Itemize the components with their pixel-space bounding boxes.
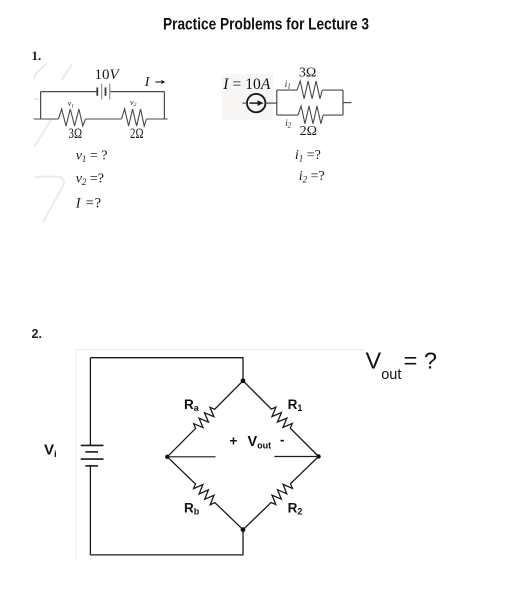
wire bottom branch left (277, 114, 298, 116)
wire network left (276, 90, 278, 115)
wire network right (342, 90, 344, 115)
edge R1 top-right with resistor (243, 381, 319, 457)
resistor 2ohm bottom (298, 106, 323, 124)
watermark tick (34, 98, 40, 101)
edge R2 bottom-right with resistor (243, 457, 319, 530)
wire left bottom (89, 466, 91, 555)
node left (165, 455, 169, 459)
wire stub left of source (243, 102, 248, 104)
svg-text:v1 = ?: v1 = ? (76, 149, 108, 165)
edge Rb bottom-left with resistor (167, 457, 243, 530)
bridge bottom wire (90, 530, 243, 555)
svg-text:1.: 1. (32, 48, 42, 63)
stub left mid (167, 456, 215, 458)
edge Ra top-left with resistor (167, 381, 243, 457)
current source CS (247, 94, 265, 112)
watermark seven (35, 176, 64, 222)
svg-text:v2 =?: v2 =? (76, 171, 104, 187)
wire right side (163, 92, 165, 119)
watermark curve top-left (34, 64, 47, 79)
svg-text:3Ω: 3Ω (69, 126, 83, 142)
paste border left (75, 350, 77, 560)
wire right stub (343, 102, 352, 104)
watermark slash (62, 64, 73, 80)
wire left top (89, 358, 91, 446)
svg-text:+: + (230, 434, 238, 449)
watermark diagonal (35, 119, 52, 147)
node bottom (241, 527, 246, 532)
svg-text:3Ω: 3Ω (299, 66, 316, 81)
svg-text:2Ω: 2Ω (130, 126, 144, 142)
svg-text:Practice Problems for Lecture: Practice Problems for Lecture 3 (163, 15, 369, 34)
wire top branch right (322, 89, 343, 91)
svg-text:2.: 2. (32, 327, 42, 341)
bridge top wire (90, 358, 243, 381)
stub right mid (274, 456, 318, 458)
resistor 3ohm (58, 109, 85, 126)
node top (241, 378, 246, 383)
wire left side (40, 92, 42, 119)
svg-text:I = 10A: I = 10A (222, 76, 271, 93)
wire source to network (265, 102, 276, 104)
wire bottom-middle (86, 118, 122, 120)
node right (316, 454, 320, 458)
wire bottom-right (147, 118, 168, 120)
shaded paste background (222, 74, 273, 120)
wire bottom branch right (323, 114, 343, 116)
battery B1 (97, 84, 110, 100)
wire top branch left (277, 89, 297, 91)
wire top-left (41, 91, 97, 93)
svg-text:10V: 10V (95, 67, 121, 83)
svg-text:I =?: I =? (75, 196, 101, 212)
battery Vi (81, 445, 104, 466)
wire bottom-left (34, 118, 59, 120)
svg-text:2Ω: 2Ω (300, 124, 317, 139)
paste border top (76, 349, 365, 351)
resistor 2ohm (122, 109, 147, 126)
wire top-right (111, 91, 165, 93)
resistor 3ohm top (297, 81, 322, 99)
svg-text:-: - (280, 433, 285, 448)
